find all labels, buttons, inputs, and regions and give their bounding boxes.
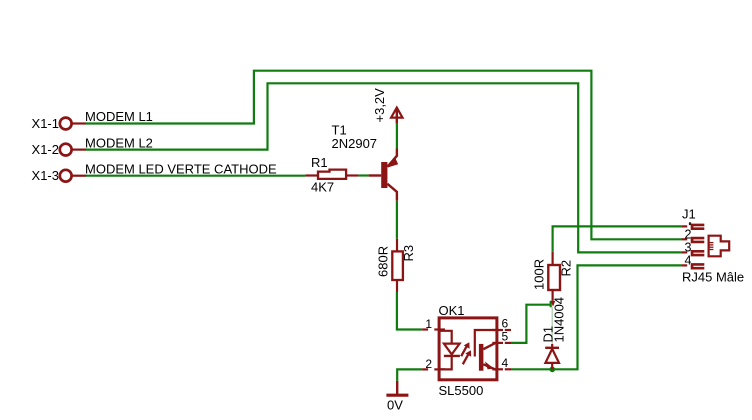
svg-text:R1: R1 (311, 155, 328, 170)
wire T1 collector to R3 (396, 201, 398, 239)
J1 pin 2 contact (691, 237, 705, 243)
wire stub at R2 bottom junction (550, 301, 552, 308)
OK1 internal phototransistor (475, 330, 496, 371)
J1 pin 1 tiny mark (689, 222, 691, 225)
svg-text:X1-1: X1-1 (32, 116, 59, 131)
J1 pin 4 contact (691, 263, 705, 269)
wire OK1 pin2 to ground (397, 369, 422, 381)
J1 pin 3 lead (681, 251, 687, 253)
thin wire R2 junction to D1 cathode (551, 307, 553, 344)
svg-text:1: 1 (425, 317, 432, 331)
svg-text:SL5500: SL5500 (439, 383, 484, 398)
connector X1-3 pin circle (60, 170, 86, 182)
power +3.2V symbol (391, 108, 402, 124)
resistor R3 (392, 239, 403, 292)
resistor R1 (305, 170, 358, 179)
svg-text:R3: R3 (401, 245, 416, 262)
svg-text:0V: 0V (387, 398, 403, 413)
wire R1 to T1 base (358, 174, 368, 176)
svg-text:J1: J1 (682, 207, 696, 222)
J1 pin 4 lead (681, 264, 687, 266)
J1 pin 3 contact (691, 250, 705, 256)
svg-text:MODEM L2: MODEM L2 (85, 136, 153, 151)
wire OK1 pin4 to J1 pin 4 (511, 265, 681, 369)
ground 0V symbol (386, 381, 408, 395)
svg-text:X1-2: X1-2 (32, 142, 59, 157)
wire R2 top to J1 pin 1 (553, 226, 682, 251)
svg-text:MODEM LED VERTE CATHODE: MODEM LED VERTE CATHODE (85, 162, 277, 177)
svg-text:OK1: OK1 (439, 303, 465, 318)
optocoupler OK1 box (422, 318, 511, 380)
svg-text:R2: R2 (559, 260, 574, 277)
J1 pin 1 contact (691, 224, 705, 230)
wire net MODEM LED VERTE CATHODE from X1-3 to R1 (86, 175, 305, 177)
svg-text:2N2907: 2N2907 (332, 136, 378, 151)
connector X1-2 pin circle (60, 144, 86, 156)
svg-text:4: 4 (502, 356, 509, 370)
svg-text:5: 5 (502, 329, 509, 343)
svg-text:+3,2V: +3,2V (372, 88, 387, 123)
wire R3 to OK1 pin 1 (397, 292, 422, 330)
svg-text:100R: 100R (532, 259, 547, 290)
J1 RJ45 jack symbol (709, 236, 730, 257)
wire OK1 pin5 to R2 bottom (511, 305, 552, 343)
diode D1 1N4004 (545, 344, 559, 369)
svg-text:X1-3: X1-3 (32, 168, 59, 183)
svg-text:2: 2 (685, 228, 692, 242)
wire net MODEM L2 from X1-2 to J1 pin 3 (86, 83, 681, 252)
transistor T1 2N2907 PNP (369, 149, 399, 201)
svg-text:1N4004: 1N4004 (552, 297, 567, 343)
OK1 internal light arrow (461, 342, 471, 364)
wire +3.2V to T1 emitter (396, 124, 398, 149)
svg-text:680R: 680R (376, 246, 391, 277)
connector X1-1 pin circle (60, 118, 86, 130)
svg-text:2: 2 (425, 357, 432, 371)
svg-text:3: 3 (685, 241, 692, 255)
svg-text:MODEM L1: MODEM L1 (85, 109, 153, 124)
svg-text:4: 4 (685, 254, 692, 268)
svg-text:6: 6 (502, 317, 509, 331)
J1 pin 1 lead (681, 225, 687, 227)
svg-text:RJ45 Mâle: RJ45 Mâle (682, 270, 744, 285)
svg-text:4K7: 4K7 (311, 180, 334, 195)
wire net MODEM L1 from X1-1 to J1 pin 2 (86, 71, 681, 240)
junction dot D1 anode net (550, 367, 556, 373)
J1 pin 2 lead (681, 238, 687, 240)
resistor R2 (548, 252, 560, 301)
OK1 internal LED (439, 331, 460, 370)
